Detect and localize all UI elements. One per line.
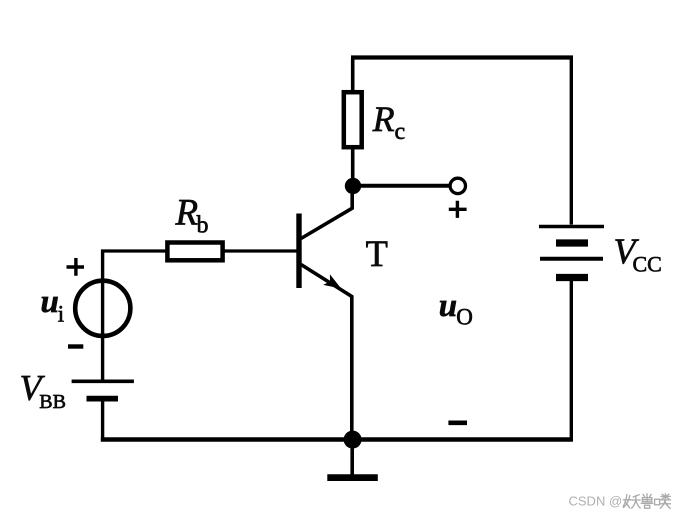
svg-text:O: O <box>456 305 473 330</box>
svg-text:BB: BB <box>39 391 66 413</box>
svg-text:R: R <box>175 192 199 233</box>
svg-text:CC: CC <box>633 251 662 276</box>
svg-text:c: c <box>395 119 406 145</box>
svg-text:b: b <box>197 213 209 239</box>
svg-text:R: R <box>372 99 395 139</box>
svg-text:CSDN @: CSDN @ <box>569 494 623 509</box>
svg-text:T: T <box>366 233 388 274</box>
svg-text:i: i <box>58 301 64 326</box>
svg-text:u: u <box>439 288 457 324</box>
svg-text:u: u <box>41 284 59 320</box>
